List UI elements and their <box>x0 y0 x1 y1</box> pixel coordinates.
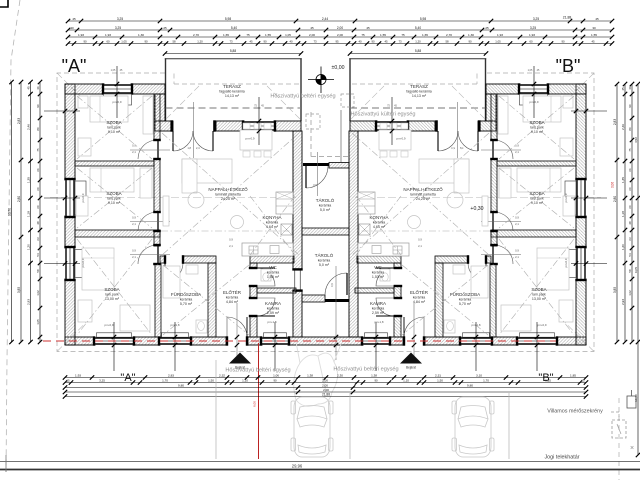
svg-text:kerámia: kerámia <box>267 306 280 310</box>
bedroom partition wall 1 <box>497 161 576 166</box>
furniture living sofa <box>419 159 469 183</box>
svg-text:pm-0,9: pm-0,9 <box>564 258 568 267</box>
svg-text:pm-1,8: pm-1,8 <box>472 323 481 327</box>
svg-text:1,05: 1,05 <box>528 69 533 72</box>
svg-text:4,84 m²: 4,84 m² <box>413 300 426 304</box>
kitchen counters <box>358 192 375 214</box>
svg-text:kerámia: kerámia <box>180 297 193 301</box>
svg-text:2,1: 2,1 <box>132 150 136 154</box>
svg-text:WC: WC <box>269 265 277 270</box>
svg-text:TÁROLÓ: TÁROLÓ <box>316 197 335 203</box>
storage middle wall <box>302 228 349 235</box>
svg-text:2,1: 2,1 <box>132 222 136 226</box>
svg-text:kerámia: kerámia <box>413 295 426 299</box>
bedroom column wall <box>491 94 497 140</box>
svg-text:1,35: 1,35 <box>26 177 30 183</box>
svg-text:2,59 m²: 2,59 m² <box>267 311 280 315</box>
svg-text:1,20: 1,20 <box>26 244 30 250</box>
svg-text:3,25: 3,25 <box>545 378 551 382</box>
svg-text:0,9: 0,9 <box>515 144 519 148</box>
svg-text:lam.park: lam.park <box>530 125 544 129</box>
svg-text:1,93: 1,93 <box>75 373 81 377</box>
svg-text:kerámia: kerámia <box>372 270 385 274</box>
svg-text:73: 73 <box>398 39 402 43</box>
door wc <box>257 268 275 286</box>
svg-text:kerámia: kerámia <box>318 258 331 262</box>
svg-text:4,64 m²: 4,64 m² <box>266 225 279 229</box>
svg-text:1,53 m²: 1,53 m² <box>372 275 385 279</box>
svg-text:1,50: 1,50 <box>437 378 443 382</box>
svg-text:1,70: 1,70 <box>483 378 489 382</box>
svg-text:1,53 m²: 1,53 m² <box>267 275 280 279</box>
storage top wall <box>329 163 349 169</box>
svg-text:1,85: 1,85 <box>570 373 576 377</box>
svg-text:laminált parketta: laminált parketta <box>215 192 241 196</box>
svg-text:0,9: 0,9 <box>132 216 136 220</box>
svg-text:SZOBA: SZOBA <box>529 191 544 196</box>
svg-text:0,9: 0,9 <box>330 283 334 287</box>
furniture living sofa <box>182 159 232 183</box>
svg-text:pm-0,9: pm-0,9 <box>246 137 255 141</box>
svg-text:kerámia: kerámia <box>267 270 280 274</box>
svg-text:KONYHA: KONYHA <box>369 215 388 220</box>
central strip east wall <box>349 131 358 337</box>
svg-text:9,80: 9,80 <box>178 383 184 387</box>
red site line vertical <box>258 343 260 459</box>
parking divider 2 <box>349 393 351 459</box>
svg-text:0,9: 0,9 <box>132 249 136 253</box>
svg-text:+0,30: +0,30 <box>470 206 483 212</box>
svg-text:pm-1,8: pm-1,8 <box>171 323 180 327</box>
svg-text:15: 15 <box>581 378 585 382</box>
svg-text:2,00: 2,00 <box>322 383 328 387</box>
bottom exterior wall (both units) <box>65 337 95 345</box>
north exterior wall <box>65 84 104 94</box>
svg-text:3,25: 3,25 <box>533 17 539 21</box>
french door to terrace <box>458 131 478 151</box>
diagonals bedroom1 <box>77 96 152 159</box>
dining table <box>240 130 272 150</box>
svg-text:1,20: 1,20 <box>415 39 421 43</box>
svg-text:66: 66 <box>628 168 632 172</box>
tv bench <box>482 196 488 226</box>
door bedroom3 <box>138 245 157 264</box>
svg-text:24,25 m²: 24,25 m² <box>416 197 431 201</box>
svg-text:4,64 m²: 4,64 m² <box>373 225 386 229</box>
svg-text:6,05: 6,05 <box>634 267 638 273</box>
svg-text:pm-0,9: pm-0,9 <box>530 100 539 104</box>
heat pump pipe line <box>340 110 342 162</box>
svg-text:pm-0,9: pm-0,9 <box>81 193 85 202</box>
left dimension chains <box>7 80 42 344</box>
door bedroom2 <box>494 212 513 231</box>
svg-text:2,1: 2,1 <box>515 150 519 154</box>
right dimension chains <box>611 82 640 457</box>
utility pole symbol <box>627 396 636 408</box>
storage door1 dim <box>317 152 319 196</box>
svg-text:1,05: 1,05 <box>285 33 291 37</box>
diagonals living <box>352 133 489 255</box>
wall wc/pantry <box>355 288 394 293</box>
svg-text:2,1: 2,1 <box>132 255 136 259</box>
svg-text:80: 80 <box>36 127 40 131</box>
svg-text:75: 75 <box>246 33 250 37</box>
hall wall south of living <box>486 256 491 263</box>
svg-text:90: 90 <box>371 39 375 43</box>
svg-text:3,25: 3,25 <box>115 26 121 30</box>
svg-text:90: 90 <box>83 39 87 43</box>
svg-text:NAPPALI+ÉTKEZŐ: NAPPALI+ÉTKEZŐ <box>208 186 248 192</box>
unit A geometry <box>64 83 301 345</box>
diagonals hall/bath <box>163 265 249 335</box>
heat pump unit A <box>341 94 354 107</box>
door bathroom <box>468 263 486 281</box>
tv bench <box>163 196 169 226</box>
svg-text:3,10: 3,10 <box>476 373 482 377</box>
svg-text:90: 90 <box>273 378 277 382</box>
storage door 1 arc <box>306 166 328 188</box>
svg-text:30: 30 <box>70 26 74 30</box>
wall bed3/bath <box>490 264 496 337</box>
svg-text:3,25: 3,25 <box>530 26 536 30</box>
window bedroom2 west <box>576 180 586 216</box>
svg-text:14,13 m²: 14,13 m² <box>225 94 240 98</box>
porch canopy dashed <box>310 112 312 157</box>
svg-text:3,25: 3,25 <box>117 17 123 21</box>
svg-text:90: 90 <box>561 39 565 43</box>
svg-text:pm-1,8: pm-1,8 <box>375 320 384 324</box>
svg-text:95: 95 <box>335 39 339 43</box>
svg-text:2,00: 2,00 <box>322 378 328 382</box>
svg-text:9,10 m²: 9,10 m² <box>531 130 544 134</box>
svg-text:2,30: 2,30 <box>337 373 343 377</box>
roof eave dashed over terraces <box>174 83 299 85</box>
storage door 2 arc <box>325 273 347 295</box>
svg-text:TÁROLÓ: TÁROLÓ <box>315 252 334 258</box>
svg-text:5,0 m²: 5,0 m² <box>320 208 331 212</box>
svg-text:pm-0,9: pm-0,9 <box>113 100 122 104</box>
svg-text:kerámia: kerámia <box>459 297 472 301</box>
svg-text:90: 90 <box>263 39 267 43</box>
diagonals kitchen <box>250 196 295 255</box>
rug <box>447 192 463 208</box>
svg-text:2,44: 2,44 <box>322 17 328 21</box>
svg-text:pm-0,9: pm-0,9 <box>105 323 114 327</box>
svg-text:45: 45 <box>249 39 253 43</box>
svg-text:63: 63 <box>628 237 632 241</box>
rug <box>188 192 204 208</box>
svg-text:1,50: 1,50 <box>208 378 214 382</box>
svg-text:NAPPALI+ÉTKEZŐ: NAPPALI+ÉTKEZŐ <box>403 186 443 192</box>
svg-text:0,9: 0,9 <box>418 238 422 242</box>
svg-text:lam.park: lam.park <box>107 125 121 129</box>
svg-text:3,06: 3,06 <box>611 182 615 188</box>
svg-text:1,10: 1,10 <box>403 378 409 382</box>
opening kamra-storage <box>294 270 296 290</box>
svg-text:60: 60 <box>106 39 110 43</box>
svg-text:SZOBA: SZOBA <box>106 191 121 196</box>
window bedroom2 west <box>65 180 75 216</box>
coffee table <box>231 216 244 229</box>
door bedroom1 <box>494 140 513 159</box>
svg-text:1,05: 1,05 <box>36 319 40 325</box>
diagonals bedroom3 <box>499 239 574 335</box>
diagonals bedroom3 <box>77 239 152 335</box>
kitchen counters <box>276 192 293 214</box>
wall bath/hall <box>208 263 216 337</box>
furniture bedroom1 <box>90 96 128 122</box>
dining table <box>379 130 411 150</box>
entry arrow A <box>229 353 251 364</box>
svg-text:1,65: 1,65 <box>223 33 229 37</box>
furniture bedroom3 <box>82 248 114 290</box>
svg-text:5,88: 5,88 <box>415 49 421 53</box>
svg-text:SZOBA: SZOBA <box>106 120 121 125</box>
door wc <box>376 268 394 286</box>
svg-text:45: 45 <box>366 26 370 30</box>
svg-text:75: 75 <box>628 148 632 152</box>
west exterior wall <box>576 84 586 180</box>
svg-text:kerámia: kerámia <box>319 203 332 207</box>
svg-text:75: 75 <box>36 148 40 152</box>
svg-text:5,70 m²: 5,70 m² <box>180 302 193 306</box>
heat pump unit B <box>306 114 320 129</box>
parking divider 1 <box>215 360 217 459</box>
svg-text:pm-0,9: pm-0,9 <box>397 137 406 141</box>
svg-text:pm-0,9: pm-0,9 <box>81 258 85 267</box>
bedroom partition wall 2 <box>491 230 576 237</box>
svg-text:2,1: 2,1 <box>515 255 519 259</box>
svg-text:3,25: 3,25 <box>99 378 105 382</box>
svg-text:5,98: 5,98 <box>420 17 426 21</box>
site boundary lines <box>0 461 640 463</box>
svg-text:3,85: 3,85 <box>613 287 617 293</box>
wall hall/wc-pantry <box>250 263 257 268</box>
svg-text:1,93: 1,93 <box>105 33 111 37</box>
svg-text:63: 63 <box>36 237 40 241</box>
svg-text:73: 73 <box>313 39 317 43</box>
svg-text:13,00 m²: 13,00 m² <box>105 297 120 301</box>
window bedroom3 west <box>65 248 75 279</box>
svg-text:90: 90 <box>36 104 40 108</box>
unit B geometry (mirror) <box>350 83 587 345</box>
svg-text:36: 36 <box>36 86 40 90</box>
door bathroom <box>165 263 183 281</box>
door dim leader <box>457 102 459 158</box>
svg-text:1,8: 1,8 <box>459 146 463 150</box>
svg-text:90: 90 <box>468 39 472 43</box>
top dimension chains <box>66 16 614 56</box>
svg-text:1,02: 1,02 <box>36 290 40 296</box>
svg-text:TERASZ: TERASZ <box>223 84 241 89</box>
entry door <box>404 317 424 337</box>
svg-text:1,55: 1,55 <box>380 33 386 37</box>
svg-text:lam.park: lam.park <box>105 292 119 296</box>
svg-text:60: 60 <box>529 39 533 43</box>
roof hip lines <box>57 73 86 102</box>
svg-text:13,00 m²: 13,00 m² <box>532 297 547 301</box>
car B <box>452 397 494 457</box>
entry door <box>227 317 247 337</box>
storage door 2 lintel <box>325 299 349 302</box>
diagonals bedroom2 <box>77 168 152 228</box>
svg-text:1,70: 1,70 <box>162 378 168 382</box>
svg-text:90: 90 <box>628 104 632 108</box>
car A <box>291 397 333 457</box>
storage bottom wall <box>302 295 325 302</box>
svg-text:4,52: 4,52 <box>634 137 638 143</box>
svg-text:25: 25 <box>163 26 167 30</box>
roof overhang dashed outline <box>57 73 594 352</box>
svg-text:±0,00: ±0,00 <box>332 65 345 71</box>
svg-text:29,96: 29,96 <box>292 464 303 469</box>
svg-text:21,88: 21,88 <box>322 392 330 396</box>
door dim leader <box>193 102 195 158</box>
svg-text:kerámia: kerámia <box>226 295 239 299</box>
svg-text:5,40: 5,40 <box>415 26 421 30</box>
svg-text:fagyálló kerámia: fagyálló kerámia <box>219 89 245 93</box>
diagonals living <box>162 133 299 255</box>
svg-text:1,30: 1,30 <box>468 33 474 37</box>
terrace B outline <box>349 58 351 121</box>
svg-text:10,70: 10,70 <box>7 208 11 216</box>
door bedroom2 <box>138 212 157 231</box>
svg-text:2,59 m²: 2,59 m² <box>372 311 385 315</box>
svg-text:8,00: 8,00 <box>253 401 257 407</box>
svg-text:1,30: 1,30 <box>138 33 144 37</box>
bedroom column wall <box>154 94 160 140</box>
svg-text:2,83: 2,83 <box>17 118 21 124</box>
svg-text:1,55: 1,55 <box>591 33 597 37</box>
svg-text:1,20: 1,20 <box>197 39 203 43</box>
svg-text:KAMRA: KAMRA <box>370 301 386 306</box>
svg-text:5,0 m²: 5,0 m² <box>319 263 330 267</box>
bathroom fixtures <box>471 266 488 298</box>
property boundary dashed right <box>618 398 620 480</box>
svg-text:45: 45 <box>72 17 76 21</box>
svg-text:lam.park: lam.park <box>532 292 546 296</box>
door bedroom1 <box>138 140 157 159</box>
svg-text:Villamos mérőszekrény: Villamos mérőszekrény <box>547 409 603 415</box>
wall bath/hall <box>435 263 443 337</box>
svg-text:5,98: 5,98 <box>225 17 231 21</box>
svg-text:24,25 m²: 24,25 m² <box>221 197 236 201</box>
svg-text:ELŐTÉR: ELŐTÉR <box>223 289 242 295</box>
svg-text:45: 45 <box>26 86 30 90</box>
svg-text:5,40: 5,40 <box>231 26 237 30</box>
french door to terrace <box>173 131 193 151</box>
shrub at walkway <box>294 342 341 406</box>
svg-text:TERASZ: TERASZ <box>410 84 428 89</box>
svg-text:1,38: 1,38 <box>371 373 377 377</box>
window bedroom1 north <box>104 84 131 94</box>
svg-text:0,9: 0,9 <box>229 238 233 242</box>
svg-text:40: 40 <box>358 39 362 43</box>
svg-text:1,20: 1,20 <box>621 244 625 250</box>
door pantry <box>376 298 394 316</box>
svg-text:60: 60 <box>628 205 632 209</box>
roof line through kitchen <box>358 230 490 232</box>
svg-text:KONYHA: KONYHA <box>262 215 281 220</box>
storage top lintel <box>303 163 329 166</box>
svg-text:58: 58 <box>628 269 632 273</box>
svg-text:2,46: 2,46 <box>26 124 30 130</box>
svg-text:30: 30 <box>628 86 632 90</box>
coffee table <box>408 216 421 229</box>
svg-text:2,80: 2,80 <box>613 196 617 202</box>
svg-text:1,18: 1,18 <box>26 211 30 217</box>
entry arrow B <box>400 353 422 364</box>
svg-text:0,9: 0,9 <box>515 249 519 253</box>
svg-text:9,80: 9,80 <box>467 383 473 387</box>
svg-text:48: 48 <box>628 221 632 225</box>
title block corner <box>0 0 8 7</box>
svg-text:2,4: 2,4 <box>196 146 200 150</box>
svg-text:1,8: 1,8 <box>187 146 191 150</box>
svg-text:0,9: 0,9 <box>132 144 136 148</box>
roof ridge line <box>50 197 296 199</box>
svg-text:90: 90 <box>374 378 378 382</box>
svg-text:WC: WC <box>374 265 382 270</box>
svg-text:SZOBA: SZOBA <box>104 287 119 292</box>
svg-text:2,32: 2,32 <box>219 373 225 377</box>
svg-text:Hőszivattyú beltéri egység: Hőszivattyú beltéri egység <box>225 368 290 374</box>
svg-text:21,88: 21,88 <box>563 16 572 20</box>
svg-text:2,00: 2,00 <box>337 33 343 37</box>
svg-text:1,38: 1,38 <box>307 373 313 377</box>
svg-text:2,1: 2,1 <box>515 222 519 226</box>
window bedroom3 west <box>576 248 586 279</box>
svg-text:1,02: 1,02 <box>628 290 632 296</box>
svg-text:2,70: 2,70 <box>193 33 199 37</box>
terrace A outline <box>165 58 167 121</box>
diagonals hall/bath <box>402 265 488 335</box>
svg-text:48: 48 <box>36 221 40 225</box>
wall hall/wc-pantry <box>394 263 401 268</box>
svg-text:2,00: 2,00 <box>323 388 329 392</box>
svg-text:1,93: 1,93 <box>78 33 84 37</box>
svg-text:FÜRDőSZOBA: FÜRDőSZOBA <box>450 291 480 297</box>
svg-text:1,06: 1,06 <box>273 373 279 377</box>
svg-text:45: 45 <box>591 39 595 43</box>
svg-text:30: 30 <box>592 26 596 30</box>
svg-text:SZOBA: SZOBA <box>531 287 546 292</box>
svg-text:1,55: 1,55 <box>265 33 271 37</box>
window bedroom1 north <box>520 84 547 94</box>
svg-text:4,84 m²: 4,84 m² <box>226 300 239 304</box>
svg-text:75: 75 <box>401 33 405 37</box>
svg-text:Hőszivattyú beltéri egység: Hőszivattyú beltéri egység <box>333 367 398 373</box>
north wall step <box>155 94 165 121</box>
parking divider 3 <box>508 393 510 459</box>
svg-text:1,10: 1,10 <box>242 378 248 382</box>
diagonals bedroom2 <box>499 168 574 228</box>
svg-text:45: 45 <box>621 87 625 91</box>
svg-text:60: 60 <box>628 187 632 191</box>
svg-text:80: 80 <box>628 127 632 131</box>
svg-text:1,05: 1,05 <box>111 69 116 72</box>
svg-text:15: 15 <box>66 378 70 382</box>
bathroom fixtures <box>163 266 180 298</box>
svg-text:2,00: 2,00 <box>309 33 315 37</box>
svg-text:2,83: 2,83 <box>168 373 174 377</box>
svg-text:2,1: 2,1 <box>418 244 422 248</box>
svg-text:0,9: 0,9 <box>313 183 317 187</box>
svg-text:2,70: 2,70 <box>446 33 452 37</box>
door pantry <box>257 298 275 316</box>
svg-text:kerámia: kerámia <box>266 220 279 224</box>
svg-text:58: 58 <box>172 39 176 43</box>
